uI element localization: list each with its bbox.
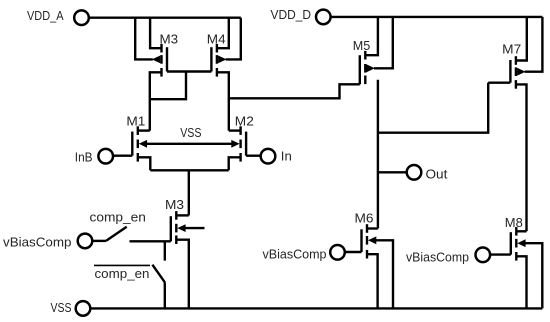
terminal vBiasComp (middle) <box>330 245 345 260</box>
svg-text:M2: M2 <box>235 114 254 129</box>
wire M4 source to VDD_A <box>217 18 229 49</box>
overline comp_en-bar <box>94 264 150 266</box>
transistor M3 (NMOS tail current source) <box>171 211 186 244</box>
transistor M7 (PMOS) <box>510 56 525 88</box>
wire switch2 top contact <box>164 241 166 260</box>
wire M3-M4 gates <box>167 70 211 72</box>
wire M7 gate stub <box>488 81 510 83</box>
wire VDD_A rail <box>89 17 241 19</box>
wire M4 drain <box>217 72 229 130</box>
switch comp_en blade <box>106 227 127 241</box>
wire M4 bulk to VDD_A <box>226 18 241 60</box>
wire M3 drain <box>150 72 162 130</box>
wire M6 source to VSS <box>367 254 378 308</box>
wire M8 drain stub <box>516 230 526 232</box>
svg-text:M3: M3 <box>165 197 184 212</box>
transistor M8 (NMOS) <box>511 227 526 261</box>
svg-text:vBiasComp: vBiasComp <box>406 250 469 265</box>
svg-text:VSS: VSS <box>180 125 202 140</box>
terminal vBiasComp (right) <box>476 248 491 263</box>
transistor M1 (NMOS diff pair) <box>132 126 147 161</box>
switch comp_en-bar blade <box>152 265 165 283</box>
wire diff pair source bus <box>150 169 228 171</box>
wire M2 drain stub <box>229 129 241 131</box>
svg-text:M3: M3 <box>160 31 179 46</box>
wire M3 tail source to VSS <box>176 240 189 309</box>
svg-text:VDD_A: VDD_A <box>27 8 64 23</box>
wire M8 bulk to VSS <box>524 243 543 308</box>
transistor M2 (NMOS diff pair) <box>231 126 246 161</box>
wire M6 drain stub <box>367 227 378 229</box>
wire M6 bulk to VSS <box>375 240 394 308</box>
svg-text:VSS: VSS <box>51 300 72 315</box>
svg-text:In: In <box>281 148 292 163</box>
svg-text:InB: InB <box>75 150 93 165</box>
transistor M5 (PMOS) <box>360 51 375 84</box>
wire M3 tail gate / switch net <box>130 240 171 242</box>
terminal vBiasComp (left) <box>78 234 93 249</box>
svg-text:comp_en: comp_en <box>95 266 150 281</box>
wire switch left contact <box>92 240 106 242</box>
wire M3 tail bulk stub <box>185 227 205 229</box>
wire M5 drain / Out node <box>377 80 379 229</box>
wire M2 source <box>229 157 241 170</box>
wire M3 bulk to VDD_A <box>135 18 153 60</box>
svg-text:comp_en: comp_en <box>90 209 146 224</box>
wire M6 gate <box>345 251 362 253</box>
terminal Out <box>407 165 422 180</box>
wire M8 source to VSS <box>516 256 526 308</box>
wire M1-M2 bulk tie <box>144 143 234 145</box>
wire M1 drain stub <box>138 129 150 131</box>
wire M3 tail drain <box>176 214 189 216</box>
svg-text:M6: M6 <box>355 210 374 225</box>
wire switch2 to VSS rail <box>164 282 166 308</box>
svg-text:M1: M1 <box>126 114 145 129</box>
wire M1 gate to InB <box>113 154 132 156</box>
wire Out stub <box>378 171 407 173</box>
svg-text:M5: M5 <box>353 38 371 53</box>
terminal VSS <box>76 301 91 316</box>
terminal InB <box>98 149 113 164</box>
wire M3 source to VDD_A <box>150 18 161 49</box>
wire tail node <box>188 170 190 215</box>
wire M1 source <box>138 157 151 170</box>
transistor M3 (PMOS current mirror) <box>152 44 167 77</box>
wire M7 drain to M8 drain <box>516 84 527 231</box>
wire VSS rail <box>90 307 542 309</box>
wire M7 bulk to VDD_D <box>525 17 543 72</box>
wire gate-drain diode link <box>150 72 186 100</box>
svg-text:M8: M8 <box>505 215 523 230</box>
terminal VDD_A <box>74 10 89 25</box>
svg-text:vBiasComp: vBiasComp <box>263 246 327 261</box>
svg-text:M7: M7 <box>502 42 521 57</box>
wire M8 gate <box>490 253 511 255</box>
wire M5 gate from mirror <box>229 84 360 98</box>
wire M7 source to VDD_D <box>516 17 527 61</box>
terminal In <box>261 149 276 164</box>
svg-text:Out: Out <box>426 166 448 181</box>
wire M2 gate to In <box>246 154 260 156</box>
wire M5 bulk to VDD_D <box>374 17 393 68</box>
wire VDD_D rail <box>331 16 543 18</box>
terminal VDD_D <box>316 10 331 25</box>
wire M5 source to VDD_D <box>365 17 378 55</box>
transistor M4 (PMOS current mirror) <box>211 44 226 77</box>
wire Out to M7 gate <box>378 83 488 133</box>
svg-text:vBiasComp: vBiasComp <box>3 234 72 249</box>
svg-text:M4: M4 <box>207 31 226 46</box>
transistor M6 (NMOS) <box>362 224 377 258</box>
svg-text:VDD_D: VDD_D <box>271 7 312 22</box>
